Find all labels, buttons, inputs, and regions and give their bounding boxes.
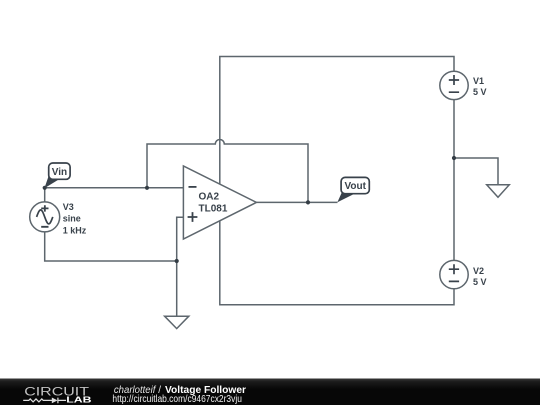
svg-text:sine: sine	[63, 214, 81, 224]
svg-text:V1: V1	[473, 76, 484, 86]
svg-text:Vout: Vout	[344, 181, 366, 192]
svg-text:1 kHz: 1 kHz	[63, 226, 87, 236]
svg-text:5 V: 5 V	[473, 277, 487, 287]
svg-text:OA2: OA2	[199, 192, 220, 203]
svg-text:Vin: Vin	[52, 167, 67, 178]
svg-text:http://circuitlab.com/c9467cx2: http://circuitlab.com/c9467cx2r3vju	[112, 393, 242, 404]
svg-text:V3: V3	[63, 202, 74, 212]
svg-text:TL081: TL081	[199, 204, 228, 215]
svg-text:5 V: 5 V	[473, 87, 487, 97]
svg-text:V2: V2	[473, 266, 484, 276]
svg-text:LAB: LAB	[66, 396, 92, 405]
